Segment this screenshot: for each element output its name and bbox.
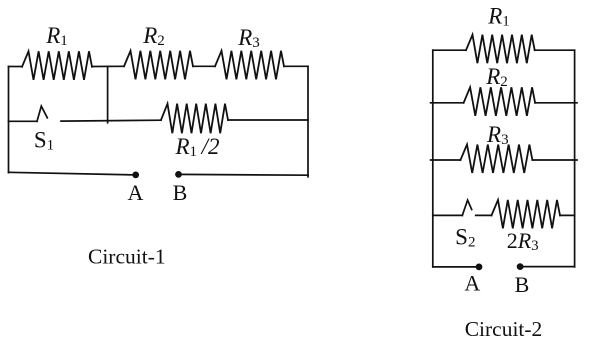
svg-text:R3: R3 xyxy=(486,122,509,148)
svg-text:A: A xyxy=(128,180,144,205)
svg-text:R1: R1 xyxy=(45,23,68,49)
svg-text:B: B xyxy=(173,180,188,205)
svg-text:Circuit-1: Circuit-1 xyxy=(88,244,166,268)
svg-text:S2: S2 xyxy=(455,224,475,250)
svg-text:R2: R2 xyxy=(485,64,508,90)
svg-text:2R3: 2R3 xyxy=(507,228,539,254)
svg-text:B: B xyxy=(515,272,530,297)
svg-text:R2: R2 xyxy=(142,23,165,49)
svg-text:S1: S1 xyxy=(34,127,54,153)
svg-text:Circuit-2: Circuit-2 xyxy=(465,317,543,341)
svg-text:R1 /2: R1 /2 xyxy=(174,134,219,160)
svg-text:A: A xyxy=(464,271,480,296)
svg-text:R3: R3 xyxy=(237,25,260,51)
svg-text:R1: R1 xyxy=(487,4,510,30)
